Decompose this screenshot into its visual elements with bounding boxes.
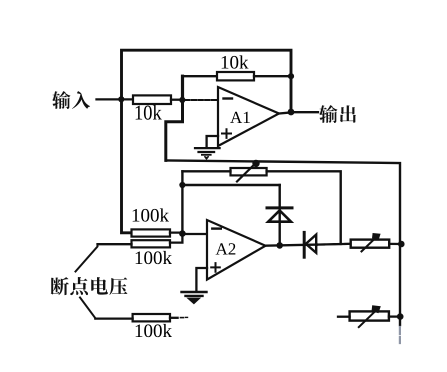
wire node to A1 minus input (dashed scan look): [185, 99, 218, 101]
potentiometer RP3 body: [350, 311, 389, 320]
diode VD2 cathode bar: [303, 232, 306, 257]
op-amp A1 triangle: [218, 87, 279, 146]
wire A2 summing vertical: [181, 171, 183, 234]
wire fan line to R5: [80, 298, 96, 319]
diode VD2 triangle: [306, 235, 316, 253]
potentiometer RP1 wiper arrow: [237, 165, 254, 182]
label A1: [230, 112, 250, 123]
resistor R3 100k body: [132, 229, 171, 236]
wire top feedback rail from A1 output node down left vertical to resistor R3: [122, 50, 292, 233]
wire R2 right lead: [254, 75, 291, 77]
RP3 arrowhead: [372, 305, 381, 313]
wire R1 to node: [171, 99, 182, 101]
wire jog from A1 minus node down to summing line: [166, 100, 183, 160]
label A2: [216, 243, 236, 254]
wire A1 + input stub: [207, 136, 218, 147]
diode VD1 triangle: [268, 210, 291, 221]
wire right vertical faint tail: [399, 327, 401, 343]
wire A1 output to node: [279, 112, 291, 113]
wire node up to feedback resistor R2: [181, 76, 184, 100]
node A2 inverting input junction: [179, 230, 186, 237]
wire long summing line across to right vertical: [166, 160, 400, 325]
wire RP1 right lead down to diode output wire: [267, 171, 341, 244]
wire A2 output run to potentiometer RP2: [266, 245, 318, 246]
node feedback/rail junction: [288, 73, 294, 79]
op-amp A2 triangle: [207, 220, 266, 280]
node A1 output: [288, 109, 295, 116]
wire R3 R4 right leads join: [170, 233, 182, 243]
label R4 100k: [136, 251, 172, 264]
wire RP3 right lead: [389, 315, 400, 317]
label R2 10k: [222, 55, 249, 68]
A1 plus sign: [222, 129, 231, 138]
wire fan line to R4: [76, 244, 98, 271]
wire RP1 left lead: [182, 170, 230, 172]
wire feedback top run to diode VD1: [182, 184, 279, 186]
resistor R1 10k body: [133, 95, 171, 104]
node RP2 right junction: [398, 241, 405, 248]
wire output lead: [291, 111, 318, 113]
wire RP2 right lead: [389, 243, 401, 245]
wire input lead: [97, 98, 134, 100]
node RP3 right junction: [397, 313, 404, 320]
diode VD1 cathode bar: [267, 206, 292, 209]
wire R4 left lead: [98, 243, 132, 245]
A2 minus sign: [212, 227, 221, 229]
A2 plus sign: [211, 263, 220, 272]
potentiometer RP2 body: [351, 240, 390, 248]
A1 minus sign: [224, 97, 233, 99]
potentiometer RP1 body: [231, 168, 267, 175]
wire R2 left lead: [182, 75, 217, 77]
resistor R4 100k body: [132, 240, 171, 247]
ground A2: [182, 292, 207, 304]
node A1 inverting input junction: [179, 97, 185, 103]
label R5 100k: [136, 324, 172, 337]
wire to A2 minus input: [182, 233, 207, 235]
wire RP3 left lead: [338, 316, 350, 318]
wire A2 + input stub: [196, 268, 207, 291]
RP2 wiper arrow: [362, 237, 377, 251]
label 输出 (output): [319, 105, 356, 123]
wire VD1 vertical through diode to A2 output node: [279, 185, 281, 246]
ground A1: [195, 148, 220, 159]
node crossover blob at input/vertical: [118, 96, 124, 102]
resistor R5 100k body: [133, 314, 170, 321]
label R3 100k: [133, 208, 169, 221]
label 断点电压 (breakpoint voltage): [51, 277, 128, 295]
label R1 10k: [136, 105, 162, 120]
resistor R2 10k feedback body: [217, 72, 254, 80]
node A2 feedback branch: [179, 182, 185, 188]
RP3 wiper arrow: [359, 310, 377, 328]
node RP1 wiper on summing line: [252, 160, 259, 167]
wire R5 left lead: [95, 317, 132, 319]
node A2 output: [276, 242, 283, 249]
label 输入 (input): [52, 91, 90, 109]
RP2 arrowhead: [372, 233, 381, 241]
wire R5 right lead with scan gap: [170, 317, 178, 319]
